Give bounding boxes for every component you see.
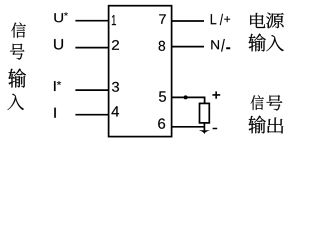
pin 6 number — [158, 118, 165, 128]
label 电源输入 power input (top right) — [248, 13, 283, 52]
label 信号输出 signal output (bottom right) — [248, 95, 283, 133]
junction dot on pin 5 wire — [184, 95, 188, 99]
plus polarity mark — [212, 91, 220, 98]
pin 2 number — [112, 40, 119, 50]
pin 4 number — [112, 106, 120, 116]
label L/+ (line terminal) — [211, 14, 230, 25]
pin 4 wire — [75, 114, 108, 116]
minus polarity mark — [213, 128, 218, 130]
pin 6 wire — [172, 126, 205, 128]
label U (voltage input) — [54, 39, 63, 49]
stem from resistor to arrowhead — [203, 123, 205, 131]
label I (current input) — [54, 108, 55, 118]
label I* (current input +) — [54, 81, 61, 91]
pin 8 wire — [172, 46, 204, 48]
label 信号输入 signal input (left column) — [7, 22, 25, 110]
pin 5 wire to load — [172, 97, 205, 103]
pin 2 wire — [75, 47, 108, 49]
pin 3 number — [112, 82, 119, 92]
label N/- (neutral terminal) — [211, 39, 230, 51]
IC body U1 — [109, 6, 172, 137]
pin 7 number — [159, 14, 166, 23]
pin 5 number — [159, 91, 166, 101]
pin 8 number — [159, 41, 165, 51]
pin 1 number — [112, 15, 116, 25]
pin 3 wire — [75, 89, 108, 91]
load resistor — [200, 103, 210, 123]
pin 1 wire — [75, 20, 108, 22]
label U* (voltage input +) — [54, 12, 68, 22]
pin 7 wire — [172, 20, 204, 22]
current direction arrowhead — [199, 130, 210, 134]
